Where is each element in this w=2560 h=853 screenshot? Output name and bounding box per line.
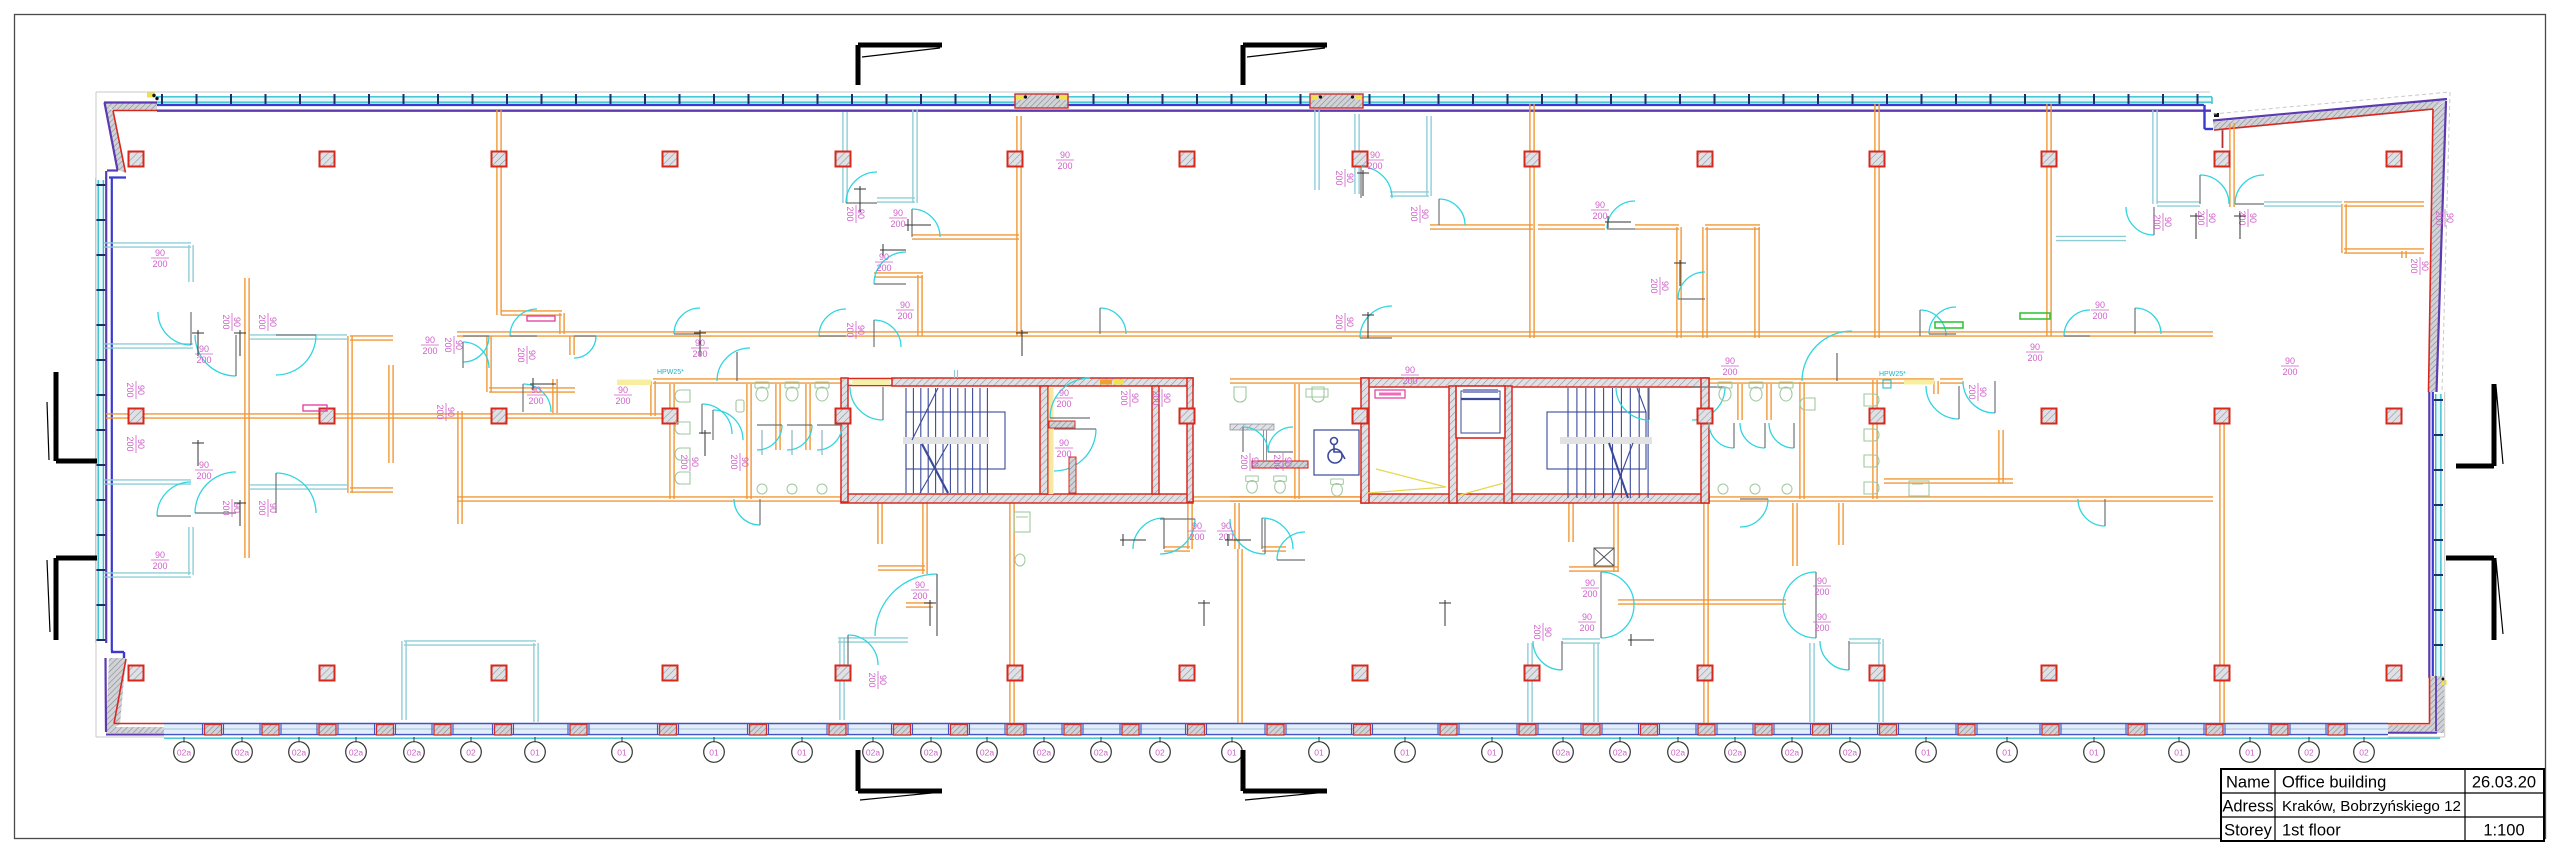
partition wall W32 (orange) bbox=[2047, 104, 2051, 336]
svg-text:01: 01 bbox=[797, 748, 807, 758]
corridor hatch band between cores bbox=[1230, 424, 1274, 430]
door swing D24 bbox=[2235, 175, 2264, 204]
svg-text:01: 01 bbox=[1227, 748, 1237, 758]
svg-text:90: 90 bbox=[893, 208, 903, 218]
svg-text:90: 90 bbox=[1817, 576, 1827, 586]
svg-text:90: 90 bbox=[1660, 281, 1670, 291]
exterior wall left (curtain wall with mullion ticks) bbox=[96, 171, 112, 650]
partition wall W40 (orange) bbox=[878, 566, 925, 570]
left stair core walls (red, hatched) bbox=[841, 378, 1193, 503]
glass partition wall G12 (pale cyan) bbox=[1390, 192, 1429, 196]
svg-text:200: 200 bbox=[443, 337, 453, 352]
svg-text:90: 90 bbox=[1817, 612, 1827, 622]
partition wall W25 (orange) bbox=[1538, 225, 1605, 229]
svg-text:90: 90 bbox=[425, 335, 435, 345]
partition wall W49 (orange) bbox=[1614, 503, 1618, 572]
glass partition wall G28 (pale cyan) bbox=[1810, 643, 1814, 722]
svg-text:90: 90 bbox=[1059, 388, 1069, 398]
door swing D32 bbox=[1230, 519, 1265, 554]
partition wall W12 (orange) bbox=[487, 336, 491, 392]
svg-text:200: 200 bbox=[2152, 214, 2162, 229]
svg-text:90: 90 bbox=[1162, 393, 1172, 403]
partition wall W13 (orange) bbox=[489, 388, 575, 392]
column K12 bbox=[2042, 152, 2057, 167]
partition wall W70 (orange) bbox=[1873, 380, 1877, 499]
dimension tick marks bbox=[192, 170, 2246, 646]
door swing D52 bbox=[1920, 310, 1946, 336]
door swing D58 bbox=[2135, 308, 2161, 334]
svg-text:90: 90 bbox=[2030, 342, 2040, 352]
svg-text:02: 02 bbox=[1155, 748, 1165, 758]
column K29 bbox=[492, 666, 507, 681]
column K1 bbox=[129, 152, 144, 167]
svg-text:02a: 02a bbox=[1728, 748, 1742, 758]
door swing D50 bbox=[1926, 386, 1959, 419]
column K38 bbox=[2042, 666, 2057, 681]
svg-text:Name: Name bbox=[2226, 774, 2270, 792]
column K19 bbox=[836, 409, 851, 424]
svg-text:02a: 02a bbox=[980, 748, 994, 758]
partition wall W38 (orange) bbox=[878, 503, 882, 544]
door swing D49 bbox=[1268, 427, 1293, 452]
door swing D48 bbox=[1243, 427, 1268, 452]
partition wall W69 (orange) bbox=[1800, 382, 1804, 499]
svg-text:200: 200 bbox=[1649, 278, 1659, 293]
svg-text:90: 90 bbox=[2248, 213, 2258, 223]
door swing D26 bbox=[936, 574, 938, 636]
column K7 bbox=[1180, 152, 1195, 167]
svg-text:90: 90 bbox=[199, 344, 209, 354]
svg-text:02a: 02a bbox=[866, 748, 880, 758]
svg-text:90: 90 bbox=[1582, 612, 1592, 622]
column K15 bbox=[129, 409, 144, 424]
svg-text:90: 90 bbox=[1283, 457, 1293, 467]
svg-text:90: 90 bbox=[155, 550, 165, 560]
svg-text:90: 90 bbox=[232, 317, 242, 327]
svg-text:02a: 02a bbox=[235, 748, 249, 758]
svg-text:1st floor: 1st floor bbox=[2282, 822, 2341, 840]
door swing D28 bbox=[1133, 518, 1164, 549]
partition wall W19 (orange) bbox=[1017, 116, 1021, 336]
svg-text:90: 90 bbox=[1345, 173, 1355, 183]
door swing D56 bbox=[1100, 308, 1126, 334]
svg-text:90: 90 bbox=[454, 340, 464, 350]
svg-text:01: 01 bbox=[2002, 748, 2012, 758]
door swing D19 bbox=[1607, 201, 1635, 229]
svg-text:90: 90 bbox=[2445, 213, 2455, 223]
column K39 bbox=[2215, 666, 2230, 681]
svg-text:200: 200 bbox=[152, 259, 167, 269]
partition wall W54 (orange) bbox=[1999, 430, 2003, 483]
partition wall W57 (orange) bbox=[1704, 503, 1708, 723]
svg-text:200: 200 bbox=[1056, 449, 1071, 459]
column K28 bbox=[320, 666, 335, 681]
door swing D46 bbox=[717, 348, 750, 381]
exterior wall bottom (window band with piers) bbox=[164, 724, 2440, 739]
svg-text:HPW25*: HPW25* bbox=[1879, 371, 1906, 378]
svg-text:200: 200 bbox=[1402, 376, 1417, 386]
partition wall W59 (orange) bbox=[651, 381, 655, 416]
door swing D2 bbox=[157, 482, 191, 516]
column K5 bbox=[836, 152, 851, 167]
column K13 bbox=[2215, 152, 2230, 167]
svg-text:90: 90 bbox=[1250, 457, 1260, 467]
svg-text:90: 90 bbox=[199, 460, 209, 470]
svg-text:01: 01 bbox=[2089, 748, 2099, 758]
door swing D55 bbox=[674, 308, 700, 334]
partition wall W61 (orange) bbox=[747, 384, 751, 499]
glass partition wall G25 (pale cyan) bbox=[1528, 643, 1532, 722]
door swing D6 bbox=[276, 473, 316, 513]
svg-text:200: 200 bbox=[867, 672, 877, 687]
svg-text:200: 200 bbox=[435, 404, 445, 419]
svg-text:Kraków, Bobrzyńskiego 12: Kraków, Bobrzyńskiego 12 bbox=[2282, 798, 2461, 815]
glass partition wall G19 (pale cyan) bbox=[840, 638, 844, 720]
column K2 bbox=[320, 152, 335, 167]
svg-text:200: 200 bbox=[890, 219, 905, 229]
svg-text:02a: 02a bbox=[177, 748, 191, 758]
glass partition wall G3 (pale cyan) bbox=[104, 344, 193, 348]
svg-text:90: 90 bbox=[2163, 217, 2173, 227]
column K30 bbox=[663, 666, 678, 681]
svg-text:90: 90 bbox=[527, 350, 537, 360]
svg-text:90: 90 bbox=[1405, 365, 1415, 375]
svg-text:200: 200 bbox=[1189, 532, 1204, 542]
door swing D31 bbox=[1160, 519, 1195, 554]
svg-text:200: 200 bbox=[1967, 384, 1977, 399]
door swing D9 bbox=[463, 336, 489, 362]
partition wall W58 (orange) bbox=[653, 379, 841, 383]
partition wall W65 (orange) bbox=[1934, 381, 1938, 394]
door swing D39 bbox=[817, 425, 842, 450]
svg-text:200: 200 bbox=[1532, 624, 1542, 639]
column grid bubbles bbox=[174, 737, 2375, 762]
svg-text:200: 200 bbox=[196, 471, 211, 481]
svg-text:200: 200 bbox=[1334, 314, 1344, 329]
door swing D38 bbox=[787, 425, 812, 450]
svg-text:1:100: 1:100 bbox=[2483, 822, 2524, 840]
partition wall W29 (orange) bbox=[1703, 227, 1707, 338]
svg-text:90: 90 bbox=[2207, 213, 2217, 223]
svg-text:200: 200 bbox=[1056, 399, 1071, 409]
door swing D27 bbox=[848, 635, 878, 665]
door swing D7 bbox=[523, 384, 551, 412]
glass partition wall G7 (pale cyan) bbox=[843, 112, 847, 203]
right core stairs bbox=[1547, 388, 1652, 498]
svg-text:200: 200 bbox=[1814, 587, 1829, 597]
partition wall W48 (orange) bbox=[1569, 503, 1573, 542]
partition wall W5 (orange) bbox=[1709, 497, 2213, 501]
svg-text:90: 90 bbox=[1725, 356, 1735, 366]
top-right wall step bbox=[2211, 97, 2213, 104]
svg-text:90: 90 bbox=[268, 317, 278, 327]
svg-text:200: 200 bbox=[1722, 367, 1737, 377]
svg-text:90: 90 bbox=[446, 407, 456, 417]
glass partition wall G30 (pale cyan) bbox=[1849, 639, 1881, 643]
door swing D18 bbox=[1439, 199, 1465, 225]
partition wall W63 (orange) bbox=[806, 384, 810, 450]
column K33 bbox=[1180, 666, 1195, 681]
partition wall W3 (orange) bbox=[457, 497, 841, 501]
partition wall W27 (orange) bbox=[1677, 227, 1681, 338]
elevator bbox=[1456, 386, 1505, 438]
partition wall W39 (orange) bbox=[923, 503, 927, 574]
door swing D5 bbox=[195, 472, 236, 513]
svg-text:200: 200 bbox=[1119, 390, 1129, 405]
svg-text:200: 200 bbox=[1057, 161, 1072, 171]
svg-text:01: 01 bbox=[1314, 748, 1324, 758]
partition wall W23 (orange) bbox=[1530, 104, 1534, 338]
door swing D45 bbox=[1963, 381, 1995, 413]
column K26 bbox=[2387, 409, 2402, 424]
door swing D16 bbox=[819, 309, 846, 336]
partition wall W9 (orange) bbox=[350, 488, 393, 492]
svg-text:90: 90 bbox=[1345, 317, 1355, 327]
column K20 bbox=[1180, 409, 1195, 424]
svg-text:02a: 02a bbox=[1556, 748, 1570, 758]
partition wall W41 (orange) bbox=[1010, 503, 1014, 723]
svg-text:200: 200 bbox=[1334, 170, 1344, 185]
svg-text:01: 01 bbox=[530, 748, 540, 758]
svg-text:200: 200 bbox=[1582, 589, 1597, 599]
svg-text:01: 01 bbox=[1921, 748, 1931, 758]
svg-text:90: 90 bbox=[1978, 387, 1988, 397]
glass partition wall G27 (pale cyan) bbox=[1562, 639, 1600, 643]
svg-text:90: 90 bbox=[1192, 521, 1202, 531]
column K40 bbox=[2387, 666, 2402, 681]
svg-text:90: 90 bbox=[2095, 300, 2105, 310]
svg-text:200: 200 bbox=[125, 382, 135, 397]
svg-text:200: 200 bbox=[679, 454, 689, 469]
door swing D44 bbox=[1836, 353, 1838, 381]
partition wall W11 (orange) bbox=[458, 411, 462, 524]
door swing D59 bbox=[1740, 499, 1768, 527]
door swing D33 bbox=[1533, 641, 1562, 670]
column K27 bbox=[129, 666, 144, 681]
column K32 bbox=[1008, 666, 1023, 681]
door swing D47 bbox=[736, 352, 738, 381]
title block table bbox=[2221, 769, 2544, 841]
plumbing fixtures and furniture bbox=[303, 313, 2050, 566]
glass partition wall G26 (pale cyan) bbox=[1594, 643, 1598, 722]
svg-text:200: 200 bbox=[2434, 210, 2444, 225]
partition wall W6 (orange) bbox=[245, 278, 249, 558]
svg-text:90: 90 bbox=[155, 248, 165, 258]
column K10 bbox=[1698, 152, 1713, 167]
svg-text:200: 200 bbox=[152, 561, 167, 571]
partition wall W62 (orange) bbox=[776, 384, 780, 450]
partition wall W53 (orange) bbox=[1839, 503, 1843, 545]
door swing D43 bbox=[1802, 331, 1852, 381]
svg-text:02: 02 bbox=[466, 748, 476, 758]
partition wall W66 (orange) bbox=[1940, 379, 1963, 383]
svg-text:90: 90 bbox=[1060, 150, 1070, 160]
partition wall W44 (orange) bbox=[1164, 547, 1190, 551]
partition wall W51 (orange) bbox=[1618, 600, 1786, 604]
svg-text:26.03.20: 26.03.20 bbox=[2472, 774, 2536, 792]
svg-text:02a: 02a bbox=[1785, 748, 1799, 758]
svg-text:90: 90 bbox=[690, 457, 700, 467]
column K23 bbox=[1870, 409, 1885, 424]
column K6 bbox=[1008, 152, 1023, 167]
glass partition wall G15 (pale cyan) bbox=[2056, 236, 2126, 240]
partition wall W20 (orange) bbox=[912, 235, 1019, 239]
svg-text:90: 90 bbox=[878, 675, 888, 685]
glass partition wall G6 (pale cyan) bbox=[104, 573, 191, 577]
partition wall W45 (orange) bbox=[1262, 547, 1286, 551]
svg-text:200: 200 bbox=[1151, 390, 1161, 405]
svg-text:90: 90 bbox=[1059, 438, 1069, 448]
partition wall W72 (orange) bbox=[1295, 384, 1299, 499]
door swing D62 bbox=[734, 499, 760, 525]
svg-text:90: 90 bbox=[618, 385, 628, 395]
door swing D25 bbox=[875, 574, 937, 636]
partition wall W1 (orange) bbox=[106, 414, 672, 418]
svg-text:Office building: Office building bbox=[2282, 774, 2386, 792]
partition wall W31 (orange) bbox=[1875, 104, 1879, 338]
svg-text:01: 01 bbox=[2245, 748, 2255, 758]
svg-text:90: 90 bbox=[136, 439, 146, 449]
door swing D3 bbox=[195, 335, 236, 376]
svg-text:90: 90 bbox=[856, 325, 866, 335]
svg-text:01: 01 bbox=[709, 748, 719, 758]
entrance door recess top wall bbox=[1015, 94, 1068, 108]
svg-text:02: 02 bbox=[2359, 748, 2369, 758]
glass partition wall G2 (pale cyan) bbox=[189, 245, 193, 282]
svg-text:200: 200 bbox=[528, 396, 543, 406]
column K37 bbox=[1870, 666, 1885, 681]
door swing D12 bbox=[846, 172, 877, 203]
svg-text:200: 200 bbox=[221, 500, 231, 515]
partition wall W50 (orange) bbox=[1569, 567, 1618, 571]
svg-text:200: 200 bbox=[2237, 210, 2247, 225]
door swing D22 bbox=[2126, 207, 2154, 235]
glass partition wall G14 (pale cyan) bbox=[2264, 202, 2342, 206]
partition wall W68 (orange) bbox=[1767, 384, 1771, 420]
column K31 bbox=[836, 666, 851, 681]
partition wall W22 (orange) bbox=[874, 273, 923, 277]
svg-text:200: 200 bbox=[1579, 623, 1594, 633]
partition wall W46 (orange) bbox=[1238, 549, 1242, 723]
glass partition wall G17 (pale cyan) bbox=[404, 641, 536, 645]
door swing D40 bbox=[1709, 423, 1734, 448]
svg-text:02a: 02a bbox=[924, 748, 938, 758]
partition wall W2 (orange) bbox=[457, 332, 2213, 336]
partition wall W43 (orange) bbox=[1235, 503, 1239, 549]
door swing D61 bbox=[2078, 499, 2105, 526]
svg-text:90: 90 bbox=[1420, 209, 1430, 219]
door swing D53 bbox=[713, 410, 743, 440]
svg-text:01: 01 bbox=[1400, 748, 1410, 758]
svg-text:02a: 02a bbox=[1671, 748, 1685, 758]
svg-text:200: 200 bbox=[196, 355, 211, 365]
column K36 bbox=[1698, 666, 1713, 681]
svg-text:90: 90 bbox=[2420, 261, 2430, 271]
svg-text:01: 01 bbox=[1487, 748, 1497, 758]
glass partition wall G22 (pale cyan) bbox=[2153, 110, 2157, 204]
door swing D15 bbox=[874, 320, 901, 347]
partition wall W60 (orange) bbox=[670, 384, 674, 499]
svg-text:HPW25*: HPW25* bbox=[657, 369, 684, 376]
svg-text:200: 200 bbox=[1272, 454, 1282, 469]
svg-text:Storey: Storey bbox=[2224, 822, 2272, 840]
partition wall W17 (orange) bbox=[560, 313, 564, 334]
partition wall W7 (orange) bbox=[348, 336, 352, 493]
column K35 bbox=[1525, 666, 1540, 681]
column K14 bbox=[2387, 152, 2402, 167]
svg-text:90: 90 bbox=[1595, 200, 1605, 210]
door swing D34 bbox=[1820, 641, 1849, 670]
door swing D20 bbox=[1678, 272, 1705, 299]
column K8 bbox=[1353, 152, 1368, 167]
svg-text:200: 200 bbox=[2196, 210, 2206, 225]
column K4 bbox=[663, 152, 678, 167]
svg-text:200: 200 bbox=[257, 314, 267, 329]
svg-text:200: 200 bbox=[845, 322, 855, 337]
column K16 bbox=[320, 409, 335, 424]
glass partition wall G29 (pale cyan) bbox=[1879, 639, 1883, 722]
door swing D1 bbox=[158, 312, 191, 345]
door swing D54 bbox=[702, 404, 732, 434]
glass partition wall G1 (pale cyan) bbox=[104, 243, 191, 247]
svg-text:90: 90 bbox=[136, 385, 146, 395]
door swing D30 bbox=[1262, 518, 1293, 549]
partition wall W14 (orange) bbox=[570, 336, 574, 355]
svg-text:200: 200 bbox=[2027, 353, 2042, 363]
partition wall W15 (orange) bbox=[497, 110, 501, 315]
svg-text:90: 90 bbox=[1585, 578, 1595, 588]
column K21 bbox=[1353, 409, 1368, 424]
entrance door recess top wall bbox=[1310, 94, 1363, 108]
door swing D36 bbox=[1783, 572, 1816, 638]
right slanted exterior wall upper bbox=[2429, 101, 2446, 392]
svg-text:200: 200 bbox=[2282, 367, 2297, 377]
partition wall W37 (orange) bbox=[2402, 251, 2406, 258]
top-left corner wall (hatched masonry) bbox=[104, 103, 157, 110]
svg-text:200: 200 bbox=[422, 346, 437, 356]
svg-text:90: 90 bbox=[856, 209, 866, 219]
svg-text:200: 200 bbox=[221, 314, 231, 329]
door swing D21 bbox=[1360, 306, 1392, 338]
glass partition wall G8 (pale cyan) bbox=[913, 109, 917, 203]
svg-text:90: 90 bbox=[915, 580, 925, 590]
svg-text:02a: 02a bbox=[1843, 748, 1857, 758]
partition wall W71 (orange) bbox=[1230, 379, 1361, 383]
glass partition wall G9 (pale cyan) bbox=[877, 198, 915, 202]
partition wall W10 (orange) bbox=[389, 365, 393, 463]
svg-text:02a: 02a bbox=[1613, 748, 1627, 758]
svg-text:01: 01 bbox=[2174, 748, 2184, 758]
svg-text:02a: 02a bbox=[407, 748, 421, 758]
partition wall W64 (orange) bbox=[1709, 379, 1934, 383]
svg-text:200: 200 bbox=[897, 311, 912, 321]
partition wall W18 (orange) bbox=[553, 379, 557, 413]
svg-text:200: 200 bbox=[845, 206, 855, 221]
svg-text:90: 90 bbox=[1221, 521, 1231, 531]
svg-text:200: 200 bbox=[729, 454, 739, 469]
glass partition wall G4 (pale cyan) bbox=[104, 480, 191, 484]
svg-text:90: 90 bbox=[1370, 150, 1380, 160]
glass partition wall G24 (pale cyan) bbox=[249, 485, 347, 489]
glass partition wall G10 (pale cyan) bbox=[1355, 114, 1359, 194]
svg-text:200: 200 bbox=[1409, 206, 1419, 221]
door swing D11 bbox=[574, 336, 596, 358]
svg-text:200: 200 bbox=[2409, 258, 2419, 273]
partition wall W21 (orange) bbox=[918, 275, 922, 336]
top-right slanted exterior wall bbox=[2213, 100, 2446, 131]
partition wall W56 (orange) bbox=[2220, 416, 2224, 723]
door swing D17 bbox=[1361, 167, 1392, 198]
